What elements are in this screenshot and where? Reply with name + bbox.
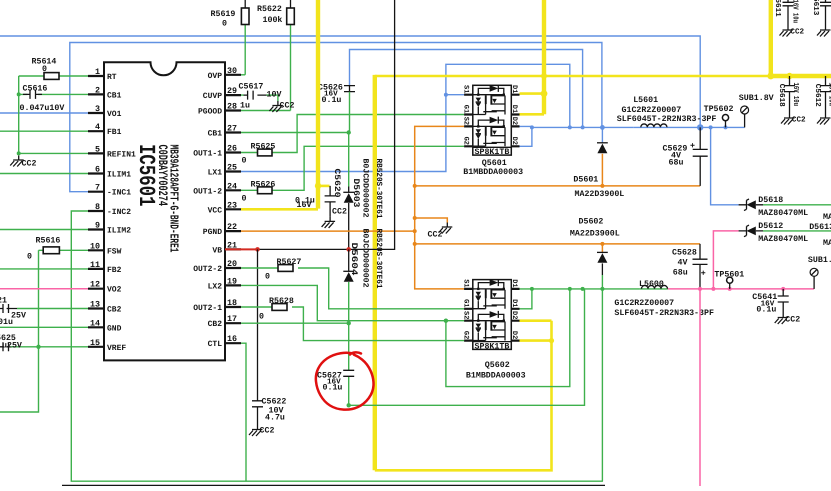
svg-text:4: 4 xyxy=(95,122,100,132)
svg-text:7: 7 xyxy=(95,183,100,193)
svg-text:LX1: LX1 xyxy=(208,169,223,178)
svg-text:C5617: C5617 xyxy=(239,83,264,92)
svg-text:23: 23 xyxy=(227,200,237,210)
capacitor C5627 xyxy=(317,323,354,407)
wire pin11 FB2 xyxy=(0,268,88,270)
svg-text:29: 29 xyxy=(227,86,237,96)
svg-text:OUT2-2: OUT2-2 xyxy=(193,265,222,274)
wire LX1 from pin25 xyxy=(241,64,570,171)
wire green pin1 RT net xyxy=(19,76,88,153)
wire pin28 PGOOD xyxy=(241,110,291,112)
wire pin3 VO1 stub blue xyxy=(0,112,88,114)
svg-text:0.1u: 0.1u xyxy=(322,96,342,105)
wire PGND orange bus xyxy=(413,126,464,289)
resistor R5619 xyxy=(211,0,250,75)
wire pin16 CTL xyxy=(241,343,246,481)
svg-text:CC2: CC2 xyxy=(428,231,443,240)
svg-text:-INC1: -INC1 xyxy=(107,189,131,198)
svg-text:3: 3 xyxy=(95,104,100,114)
connector SUB1.5V right edge xyxy=(808,256,831,289)
svg-text:27: 27 xyxy=(227,124,237,134)
svg-text:MAZ80470ML: MAZ80470ML xyxy=(758,235,808,244)
svg-text:G1: G1 xyxy=(461,105,469,113)
svg-text:VO1: VO1 xyxy=(107,110,122,119)
zener D5612 xyxy=(739,222,831,244)
wire VCC yellow top right xyxy=(767,0,831,79)
svg-text:S2: S2 xyxy=(461,311,469,319)
svg-text:MAZ80470ML: MAZ80470ML xyxy=(758,209,808,218)
wire pin5 REFIN1 xyxy=(19,152,88,154)
transistor Q5602 fet2 internals xyxy=(473,311,505,341)
svg-text:CC2: CC2 xyxy=(260,427,275,436)
resistor R5626 OUT1-2 net xyxy=(241,146,464,203)
testpoint TP5601 xyxy=(714,271,744,289)
IC5601 right pin names xyxy=(193,72,222,349)
wire PGND orange from pin22 xyxy=(241,230,415,232)
wire CB1-LX1 blue rail to C5626 xyxy=(350,50,583,128)
IC5601 right pin stubs and numbers xyxy=(225,66,241,344)
svg-text:R5619: R5619 xyxy=(211,10,236,19)
svg-text:100k: 100k xyxy=(263,15,283,25)
svg-text:0.1u: 0.1u xyxy=(756,306,776,315)
svg-text:0: 0 xyxy=(242,195,247,204)
svg-text:B0JCDD000002: B0JCDD000002 xyxy=(361,159,370,218)
wire -INC1 / LX1 upper blue rail xyxy=(70,43,602,192)
capacitor C5611 top cut xyxy=(773,0,799,26)
node VREF junction xyxy=(36,345,40,349)
zener D5618 xyxy=(739,196,831,218)
svg-text:1: 1 xyxy=(95,67,100,77)
ground CC2 at C5641 xyxy=(775,313,801,324)
svg-text:OUT2-1: OUT2-1 xyxy=(193,304,222,313)
svg-text:C5622: C5622 xyxy=(262,398,287,407)
svg-text:+: + xyxy=(690,142,695,151)
svg-text:MA22D3900L: MA22D3900L xyxy=(575,190,625,199)
svg-text:S1: S1 xyxy=(461,279,469,287)
svg-text:-INC2: -INC2 xyxy=(107,208,131,217)
wire LX2 lower loop xyxy=(446,289,570,387)
svg-text:PGOOD: PGOOD xyxy=(198,108,222,117)
svg-text:Q5601: Q5601 xyxy=(482,159,507,168)
svg-text:FSW: FSW xyxy=(107,247,122,256)
resistor R5627 OUT2-2 net xyxy=(241,258,464,309)
svg-text:SUB1.: SUB1. xyxy=(808,256,831,265)
wire LX1 S1 stub xyxy=(446,94,464,96)
svg-text:G1C2R2Z00007: G1C2R2Z00007 xyxy=(614,299,674,308)
svg-text:S1: S1 xyxy=(461,85,469,93)
label D5604 partnumbers vertical xyxy=(361,229,384,289)
svg-text:SP8K1TB: SP8K1TB xyxy=(475,343,510,352)
svg-text:15: 15 xyxy=(90,338,100,348)
svg-text:2: 2 xyxy=(95,85,100,95)
wire pin27 CB1 xyxy=(241,130,351,134)
svg-text:G1C2R2Z00007: G1C2R2Z00007 xyxy=(622,106,682,115)
svg-text:16: 16 xyxy=(227,334,237,344)
svg-text:C5618: C5618 xyxy=(777,84,786,107)
svg-text:4V: 4V xyxy=(678,258,688,267)
svg-text:REFIN1: REFIN1 xyxy=(107,150,136,159)
svg-text:0.1u: 0.1u xyxy=(323,384,343,393)
svg-text:+: + xyxy=(701,270,706,279)
svg-text:CC2: CC2 xyxy=(332,208,347,217)
svg-text:16V 10u: 16V 10u xyxy=(791,83,800,107)
svg-text:G1: G1 xyxy=(461,299,469,307)
transistor Q5601 fet1 internals xyxy=(473,85,505,115)
ground top right 2 xyxy=(817,26,831,37)
capacitor C5613 top cut xyxy=(811,0,831,26)
svg-text:R5622: R5622 xyxy=(257,5,282,14)
ground CC2 at pin5 xyxy=(10,156,36,169)
svg-text:B1MBDDA00003: B1MBDDA00003 xyxy=(463,168,523,177)
svg-text:CB2: CB2 xyxy=(208,320,223,329)
svg-text:R5625: R5625 xyxy=(251,143,276,152)
resistor R5616 pin10 FSW xyxy=(0,237,88,413)
svg-text:G2: G2 xyxy=(461,331,469,339)
svg-text:VREF: VREF xyxy=(107,344,126,353)
wire pin19 LX2 xyxy=(241,285,464,323)
IC5601 left pin names xyxy=(107,73,136,353)
svg-text:PGND: PGND xyxy=(203,228,222,237)
svg-text:26: 26 xyxy=(227,144,237,154)
svg-text:OUT1-2: OUT1-2 xyxy=(193,187,222,196)
svg-text:10: 10 xyxy=(90,241,100,251)
svg-text:C5613: C5613 xyxy=(811,0,820,16)
svg-text:D5603: D5603 xyxy=(351,179,361,208)
svg-text:R5627: R5627 xyxy=(277,258,302,267)
svg-text:D5613: D5613 xyxy=(809,223,831,232)
svg-text:0: 0 xyxy=(27,253,32,262)
svg-text:19: 19 xyxy=(227,276,237,286)
wire VO1 blue top rail xyxy=(0,36,700,127)
resistor R5625 OUT1-1 net xyxy=(241,115,464,166)
svg-text:16V: 16V xyxy=(297,201,312,210)
svg-text:CB1: CB1 xyxy=(208,130,223,139)
svg-text:LX2: LX2 xyxy=(208,282,223,291)
transistor Q5601 fet2 internals xyxy=(473,117,505,147)
wire PGND orange row2 to C5628 xyxy=(415,242,700,246)
svg-text:u25V: u25V xyxy=(2,342,22,351)
label D5603 partnumbers vertical xyxy=(361,159,384,219)
ground CC2 at C5617 xyxy=(269,101,294,112)
svg-text:0: 0 xyxy=(42,65,47,74)
svg-text:25: 25 xyxy=(227,163,237,173)
connector SUB1.8V xyxy=(739,94,774,127)
svg-text:4.7u: 4.7u xyxy=(265,414,285,423)
svg-text:C5628: C5628 xyxy=(672,248,697,257)
svg-text:D5604: D5604 xyxy=(349,243,359,276)
svg-text:24: 24 xyxy=(227,181,237,191)
wire pin17 CB2 xyxy=(241,321,351,325)
svg-text:C5611: C5611 xyxy=(773,0,782,17)
svg-text:68u: 68u xyxy=(669,158,684,167)
resistor R5628 OUT2-1 net xyxy=(241,297,464,341)
capacitor C5617 pin29 CUVP xyxy=(239,83,282,111)
svg-text:5: 5 xyxy=(95,144,100,154)
svg-text:16V 10u: 16V 10u xyxy=(790,0,799,23)
svg-text:RB520S-30TE61: RB520S-30TE61 xyxy=(374,229,383,289)
svg-text:TP5602: TP5602 xyxy=(704,105,734,114)
capacitor C5625 pin15 VREF xyxy=(0,334,88,351)
inductor L5600 xyxy=(614,280,714,318)
node output dots xyxy=(697,124,728,130)
red circle annotation around C5627 xyxy=(316,352,374,409)
svg-text:C5616: C5616 xyxy=(23,85,48,94)
svg-text:17: 17 xyxy=(227,314,237,324)
IC5601 left pin stubs and numbers xyxy=(88,67,104,348)
ground CC2 at C5620 xyxy=(322,208,347,228)
diode D5602 xyxy=(570,218,620,289)
svg-text:D1: D1 xyxy=(510,105,518,113)
wire LX1 node row to L5601 and output xyxy=(532,126,745,128)
wire LX2 node row green xyxy=(520,287,640,309)
wire VB net xyxy=(225,0,395,252)
svg-text:CC2: CC2 xyxy=(792,116,806,125)
wire pin12 VO2 pink stub xyxy=(0,288,88,290)
svg-text:CTL: CTL xyxy=(208,340,223,349)
svg-text:22: 22 xyxy=(227,222,237,232)
svg-text:21: 21 xyxy=(0,297,7,306)
svg-text:D2: D2 xyxy=(510,137,518,145)
svg-text:30: 30 xyxy=(227,66,237,76)
svg-text:D1: D1 xyxy=(510,299,518,307)
svg-text:9: 9 xyxy=(95,221,100,231)
svg-text:11: 11 xyxy=(90,260,100,270)
svg-text:0.047u10V: 0.047u10V xyxy=(20,104,65,113)
svg-text:OVP: OVP xyxy=(208,72,223,81)
svg-text:D2: D2 xyxy=(510,117,518,125)
svg-text:TP5601: TP5601 xyxy=(714,271,744,280)
wire CB2 to LX2 node xyxy=(349,289,585,405)
node LX1 junction dots xyxy=(444,93,605,130)
svg-text:CUVP: CUVP xyxy=(203,92,222,101)
wire VCC yellow right branch xyxy=(375,75,771,470)
node pin2 junction xyxy=(17,92,21,155)
svg-text:18: 18 xyxy=(227,298,237,308)
svg-text:MB39A128APFT-G-BND-ERE1: MB39A128APFT-G-BND-ERE1 xyxy=(167,145,181,253)
transistor Q5602 fet1 internals xyxy=(473,279,505,309)
svg-text:R5628: R5628 xyxy=(269,297,294,306)
svg-text:FB1: FB1 xyxy=(107,128,122,137)
testpoint TP5602 xyxy=(704,105,734,127)
svg-text:CC2: CC2 xyxy=(785,315,800,324)
svg-text:L5600: L5600 xyxy=(639,280,664,289)
wire pin8 -INC2 down left bus xyxy=(71,211,603,481)
wire VCC yellow vertical xyxy=(241,0,321,209)
svg-text:D1: D1 xyxy=(510,279,518,287)
svg-text:R5616: R5616 xyxy=(36,237,61,246)
svg-text:MA: MA xyxy=(823,239,831,248)
svg-text:CC2: CC2 xyxy=(22,160,37,169)
svg-text:VO2: VO2 xyxy=(107,286,122,295)
svg-text:6: 6 xyxy=(95,165,100,175)
svg-text:SLF6045T-2R2N3R3-3PF: SLF6045T-2R2N3R3-3PF xyxy=(617,115,717,124)
wire pin4 FB1 xyxy=(0,130,88,132)
svg-text:D2: D2 xyxy=(510,331,518,339)
svg-text:FB2: FB2 xyxy=(107,266,122,275)
wire VCC yellow D1 feed xyxy=(520,0,548,114)
svg-text:14: 14 xyxy=(90,318,100,328)
svg-text:D1: D1 xyxy=(510,85,518,93)
wire bottom black rail xyxy=(62,484,605,486)
svg-text:0: 0 xyxy=(265,273,270,282)
svg-text:C5612: C5612 xyxy=(813,84,822,107)
svg-text:13: 13 xyxy=(90,300,100,310)
wire VO2 pink to D5612 xyxy=(713,231,738,289)
svg-text:GND: GND xyxy=(107,324,122,333)
wire D2 stubs Q5601 blue xyxy=(520,126,532,146)
capacitor C5612 xyxy=(813,76,831,114)
svg-text:D5602: D5602 xyxy=(579,218,604,227)
svg-text:SP8K1TB: SP8K1TB xyxy=(475,148,510,157)
svg-text:Q5602: Q5602 xyxy=(485,361,510,370)
capacitor C5616 xyxy=(19,85,88,114)
wire pin30 OVP xyxy=(241,74,245,76)
capacitor C5629 xyxy=(663,127,708,185)
diode D5603 xyxy=(343,133,360,250)
svg-text:10V: 10V xyxy=(267,91,282,100)
svg-text:S2: S2 xyxy=(461,117,469,125)
wire D5618 branch blue xyxy=(711,127,739,204)
svg-text:B0JCDD000002: B0JCDD000002 xyxy=(361,229,370,288)
svg-text:12: 12 xyxy=(90,280,100,290)
ground CC2 at C5618 xyxy=(781,114,806,125)
label D5613 partial xyxy=(809,213,831,248)
svg-text:25V: 25V xyxy=(11,311,26,320)
ground CC2 on PGND xyxy=(415,218,453,240)
capacitor C5641 xyxy=(752,289,788,315)
svg-text:CC2: CC2 xyxy=(790,28,804,37)
diode D5604 xyxy=(343,243,359,324)
ground CC2 at C5622 xyxy=(249,425,274,436)
wire PGND orange row1 to C5629 xyxy=(415,184,701,188)
capacitor C5628 xyxy=(672,244,708,289)
resistor R5614 xyxy=(32,58,60,80)
svg-text:28: 28 xyxy=(227,102,237,112)
svg-text:16V 10u: 16V 10u xyxy=(827,83,831,107)
svg-text:1u: 1u xyxy=(240,102,250,111)
wire pin6 ILIM1 xyxy=(0,173,88,175)
svg-text:C5620: C5620 xyxy=(332,169,341,198)
svg-text:0: 0 xyxy=(259,313,264,322)
svg-text:L5601: L5601 xyxy=(633,96,658,105)
capacitor C5620 xyxy=(295,169,341,217)
svg-text:MA: MA xyxy=(823,213,831,222)
ground CC2 top right 1 xyxy=(780,26,805,37)
svg-text:ILIM2: ILIM2 xyxy=(107,227,131,236)
capacitor C5621 pin13 xyxy=(0,297,88,328)
wire VO2 pink down to page bottom xyxy=(699,289,701,486)
transistor Q5601 block xyxy=(461,85,523,177)
ground at C5612 xyxy=(817,114,831,125)
diode D5601 xyxy=(573,127,624,199)
svg-text:SUB1.8V: SUB1.8V xyxy=(739,94,774,103)
svg-text:VB: VB xyxy=(212,246,222,255)
svg-text:B1MBDDA00003: B1MBDDA00003 xyxy=(466,372,526,381)
resistor R5622 xyxy=(257,0,294,111)
svg-text:8: 8 xyxy=(95,202,100,212)
svg-text:OUT1-1: OUT1-1 xyxy=(193,150,222,159)
svg-text:R5626: R5626 xyxy=(251,181,276,190)
svg-text:01u: 01u xyxy=(0,318,13,327)
svg-text:SLF6045T-2R2N3R3-3PF: SLF6045T-2R2N3R3-3PF xyxy=(614,309,714,318)
wire pin14 GND xyxy=(0,326,88,328)
capacitor C5626 xyxy=(318,84,355,133)
capacitor C5622 xyxy=(252,249,286,425)
IC U IC5601 body xyxy=(104,62,225,360)
svg-text:20: 20 xyxy=(227,259,237,269)
svg-text:MA22D3900L: MA22D3900L xyxy=(570,229,620,238)
wire pin9 ILIM2 xyxy=(0,229,88,231)
svg-text:D5601: D5601 xyxy=(573,176,598,185)
capacitor C5618 xyxy=(777,76,800,114)
svg-text:0: 0 xyxy=(222,20,227,29)
svg-text:D2: D2 xyxy=(510,311,518,319)
svg-text:D5618: D5618 xyxy=(758,196,783,205)
svg-text:68u: 68u xyxy=(673,269,688,278)
transistor Q5602 block xyxy=(461,279,525,380)
svg-text:0: 0 xyxy=(242,157,247,166)
wire VO2 pink row xyxy=(668,287,814,291)
svg-text:CB2: CB2 xyxy=(107,306,122,315)
svg-text:VCC: VCC xyxy=(208,206,223,215)
svg-text:RT: RT xyxy=(107,73,117,82)
svg-text:CC2: CC2 xyxy=(280,102,295,111)
svg-text:CB1: CB1 xyxy=(107,91,122,100)
svg-text:D5612: D5612 xyxy=(758,222,783,231)
wire LX2 bottom vertical xyxy=(601,289,603,481)
inductor L5601 xyxy=(617,96,717,128)
svg-text:ILIM1: ILIM1 xyxy=(107,171,131,180)
svg-text:G2: G2 xyxy=(461,137,469,145)
